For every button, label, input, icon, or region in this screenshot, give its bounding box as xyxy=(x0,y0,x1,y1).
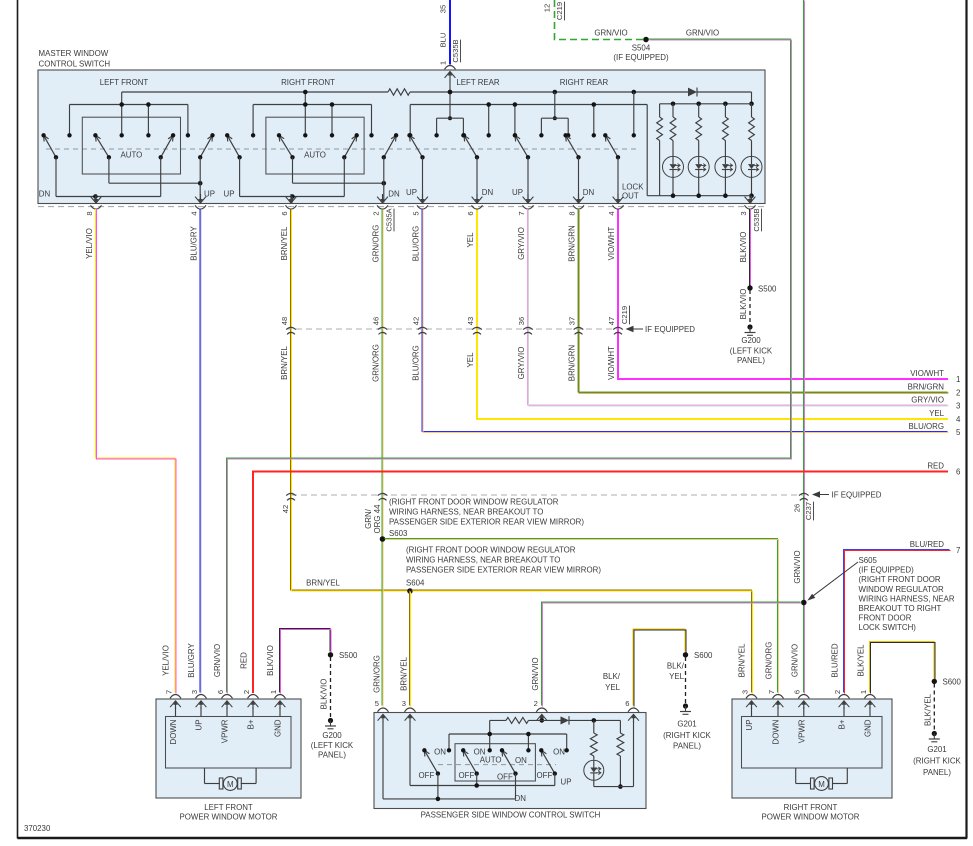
svg-text:RIGHT FRONT: RIGHT FRONT xyxy=(784,803,838,812)
master switch pin 7 at x=528 xyxy=(517,194,534,216)
RIGHT REAR arm DN xyxy=(563,133,580,202)
LEFT REAR arm UP xyxy=(407,133,424,202)
svg-text:GRN/VIO: GRN/VIO xyxy=(213,644,222,677)
svg-text:1: 1 xyxy=(859,690,868,694)
svg-text:OFF: OFF xyxy=(537,771,553,780)
wire BLU from top edge into master switch pin 1 xyxy=(449,0,451,65)
svg-text:S603: S603 xyxy=(389,529,408,538)
svg-text:GRN/ORG: GRN/ORG xyxy=(373,655,382,693)
svg-text:PANEL): PANEL) xyxy=(673,742,701,751)
svg-text:C535B: C535B xyxy=(752,208,761,231)
illumination resistor + LED column 1 xyxy=(663,104,684,196)
switch arm AUTO inner-right xyxy=(159,133,176,159)
svg-text:(RIGHT FRONT DOOR WINDOW REGUL: (RIGHT FRONT DOOR WINDOW REGULATOR xyxy=(389,498,559,507)
svg-text:DN: DN xyxy=(515,794,527,803)
motor pin 1 (GND) xyxy=(269,690,286,737)
C219 bracket pin 43 xyxy=(466,317,482,335)
ground lead dashed (S500 to G200 left) xyxy=(330,657,332,718)
splice S603 on GRN/ORG + branch to right motor pin 7 xyxy=(380,536,386,542)
svg-text:12: 12 xyxy=(543,4,552,12)
svg-text:1: 1 xyxy=(269,690,278,694)
svg-text:C237: C237 xyxy=(804,502,813,520)
svg-text:BRN/GRN: BRN/GRN xyxy=(568,225,577,262)
svg-text:YEL: YEL xyxy=(605,683,621,692)
svg-text:RIGHT FRONT: RIGHT FRONT xyxy=(281,78,335,87)
caption LEFT FRONT POWER WINDOW MOTOR xyxy=(179,803,277,822)
C219 bracket pin 46 xyxy=(371,317,387,335)
svg-text:8: 8 xyxy=(567,211,576,215)
svg-text:UP: UP xyxy=(224,190,235,199)
label LOCK OUT xyxy=(622,183,644,201)
svg-text:47: 47 xyxy=(607,317,616,325)
motor pin 6 (VPWR) xyxy=(216,690,233,743)
illumination resistor (leftmost, no LED) xyxy=(657,104,663,196)
passenger switch arm 4 xyxy=(539,748,557,776)
motor pin 3 (UP) xyxy=(740,690,757,731)
master switch pin 6 at x=477 xyxy=(466,194,483,216)
svg-text:26: 26 xyxy=(793,504,802,512)
svg-text:BREAKOUT TO RIGHT: BREAKOUT TO RIGHT xyxy=(859,604,942,613)
svg-text:BLU/GRY: BLU/GRY xyxy=(187,643,196,678)
svg-text:YEL/VIO: YEL/VIO xyxy=(162,645,171,676)
C219 bracket pin 36 xyxy=(517,317,533,335)
rear sections common wire xyxy=(408,102,647,196)
wire GRY/VIO master pin 7 to right row 3 xyxy=(528,209,949,406)
splice S500 (master switch ground) xyxy=(747,285,777,294)
svg-text:(LEFT KICK: (LEFT KICK xyxy=(730,347,773,356)
svg-text:ON: ON xyxy=(515,756,527,765)
switch arm outer-right xyxy=(382,133,399,159)
svg-text:BRN/YEL: BRN/YEL xyxy=(738,643,747,677)
motor pin 6 (VPWR) xyxy=(793,690,810,743)
svg-text:BRN/YEL: BRN/YEL xyxy=(400,657,409,691)
svg-text:GRN/VIO: GRN/VIO xyxy=(791,644,800,677)
top wire after diode to LED block xyxy=(697,92,754,106)
passenger switch pin 6 xyxy=(625,699,639,722)
svg-text:7: 7 xyxy=(767,690,776,694)
svg-text:PANEL): PANEL) xyxy=(923,768,951,777)
svg-text:OFF: OFF xyxy=(419,771,435,780)
svg-text:YEL: YEL xyxy=(929,409,945,418)
svg-text:BLK/: BLK/ xyxy=(667,662,685,671)
illumination resistor + LED column 3 xyxy=(715,104,736,196)
passenger LED cathode bus xyxy=(594,786,634,788)
svg-text:(IF EQUIPPED): (IF EQUIPPED) xyxy=(859,566,915,575)
svg-text:UP: UP xyxy=(561,778,572,787)
svg-text:6: 6 xyxy=(956,468,961,477)
ground lead dashed (S500 to G200) xyxy=(749,290,751,325)
splice S500 (left motor ground) xyxy=(328,651,358,660)
svg-text:OUT: OUT xyxy=(622,192,639,201)
passenger switch arm 2 xyxy=(461,748,479,776)
rear section contact bridge (inverted U) xyxy=(539,90,570,138)
row pin 6 label RED xyxy=(927,462,961,477)
passenger AUTO box xyxy=(455,744,535,781)
svg-text:UP: UP xyxy=(406,188,417,197)
svg-text:LEFT REAR: LEFT REAR xyxy=(456,78,500,87)
svg-text:M: M xyxy=(818,780,825,789)
svg-text:BLU/RED: BLU/RED xyxy=(831,643,840,678)
passenger LED resistor right xyxy=(617,733,624,789)
row pin 5 label BLU/ORG xyxy=(908,422,961,437)
label BLK/YEL (ground lead, 2 lines) xyxy=(667,662,685,682)
passenger switch arm 1 xyxy=(422,748,440,776)
svg-text:GRN/ORG: GRN/ORG xyxy=(765,642,774,680)
passenger UP bus xyxy=(410,774,555,788)
svg-text:VIO/WHT: VIO/WHT xyxy=(607,346,616,380)
motor pin 7 (DOWN) xyxy=(164,690,181,745)
wire BLU/ORG master pin 5 to right row 5 xyxy=(422,209,949,433)
master switch pin 8 at x=578.5 xyxy=(567,194,584,216)
splice S600 (right motor ground) xyxy=(932,678,962,687)
svg-text:2: 2 xyxy=(833,690,842,694)
svg-text:ON: ON xyxy=(434,748,446,757)
connector C237 dashed line (if equipped) xyxy=(291,494,804,496)
wire BLK/YEL passenger pin 6 to S600 xyxy=(633,629,686,707)
svg-text:G201: G201 xyxy=(927,745,946,754)
lockout switch xyxy=(603,90,636,203)
svg-text:4: 4 xyxy=(607,211,616,215)
svg-text:BLU/GRY: BLU/GRY xyxy=(190,226,199,261)
svg-text:BLK/VIO: BLK/VIO xyxy=(320,679,329,710)
svg-text:1: 1 xyxy=(439,61,448,65)
rear section contact bridge (inverted U) xyxy=(434,90,465,138)
svg-text:C535B: C535B xyxy=(451,39,460,62)
svg-text:(RIGHT FRONT DOOR: (RIGHT FRONT DOOR xyxy=(859,575,941,584)
ground G201 (right kick panel) xyxy=(663,703,711,750)
ground lead dashed (S600 to G201) xyxy=(685,657,687,704)
switch arm outer-right xyxy=(198,133,215,159)
svg-text:OFF: OFF xyxy=(497,773,513,782)
svg-text:VPWR: VPWR xyxy=(797,719,806,743)
passenger side window control switch box xyxy=(374,713,646,809)
svg-text:DN: DN xyxy=(482,188,494,197)
wire BLU/GRY master pin 4 to left motor pin 3 xyxy=(200,209,201,694)
svg-text:3: 3 xyxy=(739,211,748,215)
svg-text:BRN/GRN: BRN/GRN xyxy=(908,382,945,391)
svg-text:GRY/VIO: GRY/VIO xyxy=(517,347,526,380)
svg-text:7: 7 xyxy=(517,211,526,215)
motor pin 7 (DOWN) xyxy=(767,690,784,745)
internal top wire right part xyxy=(410,91,688,93)
svg-text:BLU/RED: BLU/RED xyxy=(910,540,945,549)
splice S605 on GRN/VIO + branch to passenger pin 2 xyxy=(801,600,807,606)
svg-text:WIRING HARNESS, NEAR BREAKOUT: WIRING HARNESS, NEAR BREAKOUT TO xyxy=(406,556,560,565)
svg-text:6: 6 xyxy=(466,211,475,215)
svg-text:3: 3 xyxy=(740,690,749,694)
svg-text:DOWN: DOWN xyxy=(169,719,178,744)
svg-text:S504: S504 xyxy=(632,44,651,53)
wire YEL master pin 6 to right row 4 xyxy=(477,210,948,419)
svg-text:3: 3 xyxy=(402,699,406,708)
C219 bracket pin 47 xyxy=(607,317,623,335)
svg-text:ON: ON xyxy=(474,748,486,757)
svg-text:MASTER WINDOW: MASTER WINDOW xyxy=(39,49,109,58)
svg-text:WIRING HARNESS, NEAR: WIRING HARNESS, NEAR xyxy=(859,594,955,603)
svg-text:FRONT DOOR: FRONT DOOR xyxy=(859,614,912,623)
wire BRN/YEL S604 to passenger pin 3 xyxy=(410,591,411,707)
passenger internal: pin 3 stem to UP bus xyxy=(409,721,411,786)
illumination resistor bus xyxy=(660,102,752,107)
C219 bracket pin 48 xyxy=(280,317,296,335)
svg-text:RED: RED xyxy=(927,462,944,471)
svg-text:BLU/ORG: BLU/ORG xyxy=(908,422,944,431)
svg-text:2: 2 xyxy=(534,699,538,708)
splice S604 on BRN/YEL + branches xyxy=(407,588,413,594)
svg-text:2: 2 xyxy=(371,211,380,215)
svg-text:8: 8 xyxy=(85,211,94,215)
ground G201 right (right kick panel) xyxy=(913,731,961,777)
svg-text:3: 3 xyxy=(956,402,961,411)
svg-text:PANEL): PANEL) xyxy=(737,356,765,365)
row pin 3 label GRY/VIO xyxy=(911,396,961,411)
illumination resistor + LED column 4 xyxy=(741,104,762,196)
svg-text:GRN/ORG: GRN/ORG xyxy=(372,344,381,382)
svg-text:42: 42 xyxy=(411,317,420,325)
svg-text:BLU: BLU xyxy=(439,33,448,48)
svg-text:6: 6 xyxy=(625,699,629,708)
svg-text:C535A: C535A xyxy=(385,207,394,231)
master switch title xyxy=(39,49,111,69)
svg-text:GND: GND xyxy=(274,719,283,737)
diode in master top wire xyxy=(688,88,697,97)
svg-text:(LEFT KICK: (LEFT KICK xyxy=(311,741,354,750)
svg-text:35: 35 xyxy=(439,5,448,13)
svg-text:WIRING HARNESS, NEAR BREAKOUT: WIRING HARNESS, NEAR BREAKOUT TO xyxy=(389,508,543,517)
ground lead dashed (S600 right to G201) xyxy=(933,684,935,732)
svg-text:GND: GND xyxy=(864,719,873,737)
svg-text:(RIGHT FRONT DOOR WINDOW REGUL: (RIGHT FRONT DOOR WINDOW REGULATOR xyxy=(406,546,576,555)
S604 note text xyxy=(406,546,601,575)
splice S600 (passenger ground) xyxy=(683,651,713,660)
svg-text:BLK/YEL: BLK/YEL xyxy=(924,693,933,726)
svg-text:BLK/: BLK/ xyxy=(603,672,621,681)
motor pin 1 (GND) xyxy=(859,690,876,737)
svg-text:PASSENGER SIDE WINDOW CONTROL: PASSENGER SIDE WINDOW CONTROL SWITCH xyxy=(421,811,601,820)
svg-text:DOWN: DOWN xyxy=(772,719,781,744)
svg-text:AUTO: AUTO xyxy=(480,756,502,765)
svg-text:GRN/: GRN/ xyxy=(364,508,373,529)
IF EQUIPPED note at C219 xyxy=(626,325,696,334)
svg-text:1: 1 xyxy=(956,375,960,384)
svg-text:DN: DN xyxy=(39,190,51,199)
ground G200 left (left kick panel) xyxy=(311,718,354,760)
connector C219 dashed line xyxy=(286,328,618,330)
svg-text:G200: G200 xyxy=(741,336,761,345)
svg-text:BRN/YEL: BRN/YEL xyxy=(280,346,289,380)
svg-text:LOCK SWITCH): LOCK SWITCH) xyxy=(859,623,917,632)
svg-text:GRY/VIO: GRY/VIO xyxy=(911,396,944,405)
svg-text:LOCK: LOCK xyxy=(622,183,644,192)
wire BLU/RED row 7 to right motor pin 2 xyxy=(844,550,951,694)
power window motor box LEFT FRONT xyxy=(156,699,301,798)
passenger switch dashed line xyxy=(438,764,556,766)
svg-text:LEFT FRONT: LEFT FRONT xyxy=(100,78,149,87)
svg-text:GRN/VIO: GRN/VIO xyxy=(594,29,627,38)
svg-text:YEL/VIO: YEL/VIO xyxy=(85,228,94,259)
svg-text:B+: B+ xyxy=(838,719,847,729)
upper bus (inner-left + outer-right arms) xyxy=(109,157,203,202)
svg-text:C219: C219 xyxy=(620,306,629,324)
svg-text:DN: DN xyxy=(583,188,595,197)
svg-text:UP: UP xyxy=(512,188,523,197)
caption RIGHT FRONT POWER WINDOW MOTOR xyxy=(761,803,859,822)
svg-text:RIGHT REAR: RIGHT REAR xyxy=(560,78,609,87)
svg-text:GRY/VIO: GRY/VIO xyxy=(517,227,526,260)
S603 note text xyxy=(389,498,584,527)
RIGHT REAR arm UP xyxy=(513,133,530,202)
switch arm DN outer-left xyxy=(41,133,58,159)
svg-text:GRN/VIO: GRN/VIO xyxy=(686,29,719,38)
svg-text:YEL: YEL xyxy=(466,352,475,368)
svg-text:6: 6 xyxy=(280,211,289,215)
LEFT REAR arm DN xyxy=(462,133,479,202)
C219 bracket pin 42 xyxy=(411,317,427,335)
svg-text:C219: C219 xyxy=(555,2,564,20)
svg-text:5: 5 xyxy=(375,699,379,708)
master window control switch box xyxy=(38,70,765,204)
svg-text:5: 5 xyxy=(956,428,961,437)
row pin 4 label YEL xyxy=(929,409,961,424)
svg-text:S600: S600 xyxy=(694,651,713,660)
passenger top wire right + LED feed xyxy=(569,718,620,733)
ground G200 (left kick panel) xyxy=(730,324,773,365)
C219 bracket pin 37 xyxy=(567,317,583,335)
svg-text:S500: S500 xyxy=(339,651,358,660)
master switch pin 2 at x=382.5 xyxy=(371,194,388,216)
wire BRN/GRN master pin 8 to right row 2 xyxy=(578,209,949,393)
svg-text:BLK/VIO: BLK/VIO xyxy=(739,289,748,320)
passenger internal: pin 2 stem to top wire xyxy=(540,718,545,723)
passenger DN bus xyxy=(383,774,516,802)
svg-text:36: 36 xyxy=(517,317,526,325)
wire GRN/VIO from S504 to left motor pin 6 xyxy=(227,39,792,694)
switch arm DN outer-left xyxy=(225,133,242,159)
AUTO box (master, off 183.6) xyxy=(266,117,364,174)
passenger switch pin 2 xyxy=(534,699,548,722)
passenger switch arm 3 xyxy=(500,748,518,776)
passenger LED column xyxy=(584,720,604,786)
svg-text:43: 43 xyxy=(466,317,475,325)
svg-text:VIO/WHT: VIO/WHT xyxy=(910,369,944,378)
C237 bracket pin 44 (GRN/ORG) xyxy=(364,493,387,533)
motor pin 3 (UP) xyxy=(190,690,207,731)
svg-text:VIO/WHT: VIO/WHT xyxy=(607,226,616,260)
passenger internal: pin 6 stem to LED bus xyxy=(633,721,635,787)
svg-text:(IF EQUIPPED): (IF EQUIPPED) xyxy=(613,53,669,62)
wire GRN/ORG master pin 2 to passenger switch pin 5 xyxy=(382,209,383,707)
resistor in master top wire xyxy=(388,89,410,95)
IF EQUIPPED note at C237 xyxy=(812,491,882,500)
svg-text:B+: B+ xyxy=(247,719,256,729)
wire YEL/VIO master pin 8 to left motor pin 7 xyxy=(96,209,177,694)
passenger switch pin 5 xyxy=(375,699,389,722)
svg-text:BRN/YEL: BRN/YEL xyxy=(306,579,340,588)
wire GRN/VIO main from top edge to right motor pin 6 xyxy=(803,0,804,694)
svg-text:7: 7 xyxy=(956,546,960,555)
wire BRN/YEL master pin 6 down to S604 run xyxy=(291,209,411,591)
svg-text:3: 3 xyxy=(190,690,199,694)
svg-text:UP: UP xyxy=(195,720,204,731)
svg-text:6: 6 xyxy=(216,690,225,694)
passenger top wire with resistor and diode xyxy=(490,717,561,723)
switch arm AUTO inner-right xyxy=(342,133,359,159)
motor symbol M xyxy=(205,768,257,790)
wire BLK/VIO left motor pin 1 to S500 xyxy=(280,629,332,694)
svg-text:2: 2 xyxy=(242,690,251,694)
svg-text:WINDOW REGULATOR: WINDOW REGULATOR xyxy=(859,585,944,594)
C237 bracket pin 42 (BRN/YEL) xyxy=(281,493,296,513)
power window motor box RIGHT FRONT xyxy=(732,699,892,798)
svg-text:YEL: YEL xyxy=(466,232,475,248)
switch arm AUTO inner-left xyxy=(93,133,111,159)
row pin 7 label BLU/RED xyxy=(910,540,961,555)
lower bus (outer-left + inner-right arms) to middle pin xyxy=(240,157,345,202)
passenger switch pin 3 xyxy=(402,699,416,722)
svg-text:5: 5 xyxy=(411,211,420,215)
svg-text:BLU/ORG: BLU/ORG xyxy=(412,345,421,381)
svg-text:PASSENGER SIDE EXTERIOR REAR V: PASSENGER SIDE EXTERIOR REAR VIEW MIRROR… xyxy=(389,518,584,527)
svg-text:S500: S500 xyxy=(758,285,777,294)
svg-text:G201: G201 xyxy=(677,720,696,729)
wire RED row 6 to left motor pin 2 xyxy=(253,472,948,694)
C237 bracket pin 26 (GRN/VIO) xyxy=(793,493,809,512)
master switch pin 4 at x=618 xyxy=(607,194,624,216)
svg-text:IF EQUIPPED: IF EQUIPPED xyxy=(832,491,882,500)
svg-text:BRN/GRN: BRN/GRN xyxy=(568,345,577,382)
svg-text:BLU/ORG: BLU/ORG xyxy=(412,226,421,262)
svg-text:POWER WINDOW MOTOR: POWER WINDOW MOTOR xyxy=(179,813,277,822)
svg-text:46: 46 xyxy=(371,317,380,325)
upper bus (inner-left + outer-right arms) xyxy=(293,157,387,202)
svg-text:(RIGHT KICK: (RIGHT KICK xyxy=(663,731,711,740)
wire BLK/VIO master pin 3 to splice S500 xyxy=(750,209,751,287)
lower bus (outer-left + inner-right arms) to middle pin xyxy=(56,157,161,202)
master switch pin 5 at x=422.5 xyxy=(411,194,428,216)
splice S504 xyxy=(613,37,669,62)
contact bridge wire xyxy=(67,92,190,138)
passenger contact bridge xyxy=(447,720,569,752)
S605 note text xyxy=(859,556,955,632)
LED cathode bus to pin 3 xyxy=(647,193,754,202)
internal top wire with resistor xyxy=(122,91,388,93)
svg-text:37: 37 xyxy=(567,317,576,325)
pin 1 entry bracket and arrow (master top) xyxy=(445,66,456,95)
svg-text:AUTO: AUTO xyxy=(121,151,143,160)
switch position dashed line (master) xyxy=(46,148,640,150)
passenger internal: pin 5 stem to DN bus xyxy=(382,721,384,799)
svg-text:BLK/YEL: BLK/YEL xyxy=(857,644,866,677)
svg-text:CONTROL SWITCH: CONTROL SWITCH xyxy=(39,60,111,69)
illumination resistor + LED column 2 xyxy=(688,104,709,196)
svg-text:4: 4 xyxy=(189,211,198,215)
svg-text:VPWR: VPWR xyxy=(221,719,230,743)
svg-text:M: M xyxy=(227,780,234,789)
wire BLK/YEL right motor pin 1 to S600 right xyxy=(870,641,935,693)
svg-text:2: 2 xyxy=(956,388,960,397)
svg-text:S605: S605 xyxy=(859,556,878,565)
S605 leader arrow xyxy=(807,562,858,601)
svg-text:BRN/YEL: BRN/YEL xyxy=(280,226,289,260)
master switch pin 4 at x=200.5 xyxy=(189,194,206,216)
row pin 1 label VIO/WHT xyxy=(910,369,960,384)
svg-text:ON: ON xyxy=(553,748,565,757)
svg-text:IF EQUIPPED: IF EQUIPPED xyxy=(645,325,695,334)
wire VIO/WHT master pin 4 to right row 1 xyxy=(618,210,948,380)
AUTO box (master, off 0) xyxy=(82,117,180,174)
svg-text:BLK/VIO: BLK/VIO xyxy=(739,232,748,263)
master switch pin 3 at x=750 xyxy=(739,194,756,216)
